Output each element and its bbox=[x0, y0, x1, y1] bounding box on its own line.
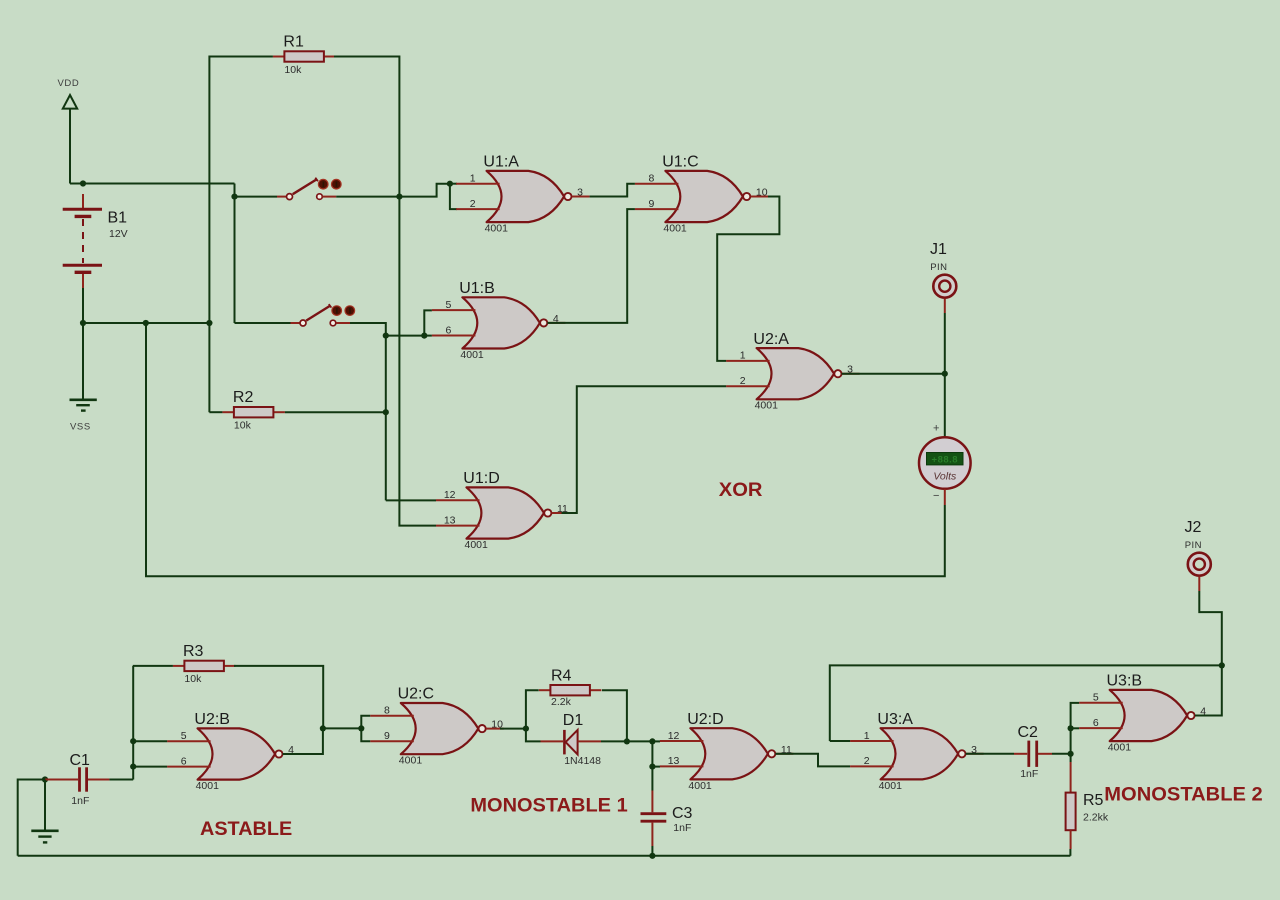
D1 cathode lead bbox=[541, 740, 564, 742]
wire to U2:B pin 6 bbox=[133, 766, 167, 768]
svg-text:6: 6 bbox=[1093, 717, 1099, 729]
junction J2 / U3:B out / feedback bbox=[1219, 662, 1225, 668]
svg-text:13: 13 bbox=[668, 755, 680, 767]
junction C1 / ground bbox=[42, 776, 48, 782]
svg-text:R2: R2 bbox=[233, 389, 254, 406]
NOR gate U2:C (4001) body bbox=[401, 703, 479, 754]
U2:D input pin 12 stub bbox=[660, 740, 704, 742]
wire node to voltmeter + bbox=[944, 374, 946, 437]
U2:C input pin 9 stub bbox=[370, 740, 414, 742]
svg-text:U2:D: U2:D bbox=[687, 711, 723, 728]
svg-text:U1:B: U1:B bbox=[459, 280, 495, 297]
switch2 left pin bbox=[291, 322, 300, 324]
svg-text:R1: R1 bbox=[283, 33, 304, 50]
wire node A vertical to U1:D pin 13 bbox=[399, 197, 436, 526]
battery B1 bottom lead bbox=[82, 274, 84, 288]
U2:A input pin 1 stub bbox=[726, 360, 770, 362]
wire switch feed vertical bbox=[234, 197, 236, 323]
U1:A input pin 1 stub bbox=[456, 183, 500, 185]
U2:D output pin 11 stub bbox=[776, 753, 794, 755]
wire node B to U1:B pin 6 bbox=[386, 335, 425, 337]
wire to U2:C pin 8 bbox=[361, 716, 370, 729]
junction U2:C out / R4 / D1 bbox=[523, 726, 529, 732]
switch1 right pin bbox=[322, 196, 336, 198]
wire C1 to R3/U2:B inputs vertical bbox=[132, 666, 134, 780]
svg-text:6: 6 bbox=[181, 755, 187, 767]
svg-text:1: 1 bbox=[864, 730, 870, 742]
C3 top lead bbox=[651, 791, 653, 813]
ground symbol VSS bbox=[70, 400, 97, 411]
svg-text:PIN: PIN bbox=[1185, 540, 1202, 551]
U3:A input pin 1 stub bbox=[850, 740, 894, 742]
svg-text:U3:A: U3:A bbox=[877, 711, 913, 728]
wire to astable ground bbox=[44, 780, 46, 830]
R4 right lead bbox=[590, 689, 602, 691]
wire R1 right vertical to switch1 node bbox=[398, 56, 400, 197]
U2:B output bubble bbox=[275, 750, 282, 757]
R4 left lead bbox=[539, 689, 551, 691]
U3:B output bubble bbox=[1187, 712, 1194, 719]
C1 left lead bbox=[45, 779, 78, 781]
wire R3 right to U2:B out node bbox=[234, 666, 323, 729]
wire down to D1 cathode bbox=[526, 729, 541, 742]
svg-text:−: − bbox=[933, 490, 939, 502]
U1:B input pin 5 stub bbox=[432, 309, 476, 311]
svg-text:C2: C2 bbox=[1018, 724, 1039, 741]
switch SW1 actuator dot 1 bbox=[318, 179, 328, 189]
wire down to pin 13 node bbox=[651, 741, 653, 766]
svg-text:1nF: 1nF bbox=[1020, 768, 1038, 780]
svg-text:VDD: VDD bbox=[58, 78, 80, 89]
wire U3:B out up to J2 node bbox=[1208, 665, 1222, 715]
svg-text:2: 2 bbox=[740, 375, 746, 387]
wire node B vertical to U1:D pin 12 bbox=[385, 336, 387, 501]
wire R2 left bbox=[209, 411, 222, 413]
svg-text:U2:B: U2:B bbox=[194, 711, 230, 728]
svg-text:1nF: 1nF bbox=[71, 795, 89, 807]
U1:B input pin 6 stub bbox=[432, 335, 476, 337]
resistor R5 body bbox=[1066, 793, 1076, 831]
junction U1:B input split bbox=[421, 333, 427, 339]
svg-text:10k: 10k bbox=[184, 673, 202, 685]
junction U2:C input split bbox=[358, 725, 364, 731]
svg-text:R3: R3 bbox=[183, 643, 204, 660]
junction node A (R1/switch1) bbox=[396, 194, 402, 200]
wire node C up to U3:B pin 5 bbox=[1071, 703, 1080, 754]
svg-text:U1:A: U1:A bbox=[483, 154, 519, 171]
wire to U1:B pin 6 stub bbox=[424, 335, 432, 337]
wire VSS rail bbox=[83, 322, 209, 324]
wire R1 right bbox=[334, 56, 399, 58]
svg-text:5: 5 bbox=[446, 299, 452, 311]
U2:B output pin 4 stub bbox=[283, 753, 301, 755]
R1 left lead bbox=[273, 56, 285, 58]
U1:D output bubble bbox=[544, 509, 551, 516]
wire to U2:D pin 13 bbox=[652, 766, 660, 768]
svg-text:PIN: PIN bbox=[930, 262, 947, 273]
svg-text:VSS: VSS bbox=[70, 422, 91, 433]
U1:C output bubble bbox=[743, 193, 750, 200]
svg-text:4001: 4001 bbox=[879, 780, 903, 792]
ground symbol at C1 bbox=[31, 831, 58, 843]
U2:D input pin 13 stub bbox=[660, 765, 704, 767]
svg-text:5: 5 bbox=[1093, 692, 1099, 704]
wire R2 right to node B bbox=[285, 411, 386, 413]
svg-text:9: 9 bbox=[649, 198, 655, 210]
wire voltmeter return to VSS rail bbox=[146, 323, 945, 576]
R3 left lead bbox=[173, 665, 185, 667]
svg-text:1nF: 1nF bbox=[673, 822, 691, 834]
svg-text:U1:D: U1:D bbox=[463, 470, 499, 487]
wire U1:B out bbox=[547, 322, 560, 324]
svg-text:ASTABLE: ASTABLE bbox=[200, 819, 292, 840]
svg-text:8: 8 bbox=[384, 705, 390, 717]
wire U1:D out to U2:A pin 2 bbox=[562, 386, 727, 513]
connector J1 outer ring bbox=[933, 275, 956, 298]
wire U3:A out to C2 bbox=[966, 753, 1014, 755]
svg-text:2.2k: 2.2k bbox=[551, 696, 572, 708]
junction battery + node bbox=[80, 180, 86, 186]
U3:B output pin 4 stub bbox=[1195, 715, 1213, 717]
svg-text:4001: 4001 bbox=[755, 400, 779, 412]
wire U1:C out to U2:A pin 1 bbox=[717, 197, 779, 361]
junction node B / R2 right bbox=[383, 409, 389, 415]
svg-text:4001: 4001 bbox=[485, 223, 509, 235]
U1:B output bubble bbox=[540, 319, 547, 326]
wire U1:B out to U1:C pin 9 bbox=[560, 209, 635, 323]
switch SW1 right pole bbox=[317, 194, 323, 200]
svg-text:J2: J2 bbox=[1185, 519, 1202, 536]
junction battery - node bbox=[80, 320, 86, 326]
svg-text:1N4148: 1N4148 bbox=[564, 755, 601, 767]
junction U2:D pin 13 / C3 bbox=[649, 764, 655, 770]
svg-text:1: 1 bbox=[740, 350, 746, 362]
svg-text:U1:C: U1:C bbox=[662, 154, 698, 171]
U1:D input pin 13 stub bbox=[436, 525, 480, 527]
wire down to C3 bbox=[651, 767, 653, 791]
wire to U1:B pin 5 bbox=[424, 310, 432, 335]
wire C1 right bbox=[109, 779, 133, 781]
svg-text:4001: 4001 bbox=[399, 755, 423, 767]
svg-text:8: 8 bbox=[649, 173, 655, 185]
R3 right lead bbox=[224, 665, 236, 667]
wire U1:A out to U1:C pin 8 bbox=[590, 184, 635, 197]
wire battery - to VSS rail bbox=[82, 288, 84, 323]
U1:A output bubble bbox=[564, 193, 571, 200]
svg-text:1: 1 bbox=[470, 173, 476, 185]
svg-text:10: 10 bbox=[756, 187, 768, 199]
svg-text:9: 9 bbox=[384, 730, 390, 742]
svg-text:J1: J1 bbox=[930, 241, 947, 258]
voltmeter body bbox=[919, 437, 971, 489]
NOR gate U2:D (4001) body bbox=[690, 728, 768, 779]
svg-text:D1: D1 bbox=[563, 712, 584, 729]
svg-text:5: 5 bbox=[181, 730, 187, 742]
U2:C input pin 8 stub bbox=[370, 715, 414, 717]
U1:A input pin 2 stub bbox=[456, 208, 500, 210]
resistor R1 body bbox=[284, 51, 324, 61]
junction VSS rail / XOR return bbox=[143, 320, 149, 326]
connector J1 inner ring bbox=[939, 281, 950, 292]
diode D1 triangle bbox=[566, 730, 578, 755]
switch SW2 right pole bbox=[330, 320, 336, 326]
junction switch poles feed bbox=[231, 194, 237, 200]
U3:B input pin 5 stub bbox=[1079, 702, 1123, 704]
junction U3:B pin 6 tap bbox=[1068, 725, 1074, 731]
svg-text:6: 6 bbox=[446, 324, 452, 336]
connector J2 inner ring bbox=[1194, 559, 1205, 570]
U2:D output bubble bbox=[768, 750, 775, 757]
NOR gate U1:B (4001) body bbox=[462, 297, 540, 348]
wire to U1:A pin 1 bbox=[450, 183, 457, 185]
U2:A input pin 2 stub bbox=[726, 385, 770, 387]
wire J1 down bbox=[944, 313, 946, 374]
wire to U2:C pin 9 bbox=[361, 728, 370, 741]
wire U2:D out stub bbox=[775, 753, 790, 755]
voltmeter bottom pin bbox=[944, 489, 946, 505]
switch SW1 actuator dot 2 bbox=[332, 179, 342, 189]
wire U2:C out bbox=[500, 728, 526, 730]
battery B1 plates bbox=[63, 209, 102, 272]
D1 anode lead bbox=[578, 740, 601, 742]
svg-text:+88.8: +88.8 bbox=[932, 454, 959, 465]
U2:C output pin 10 stub bbox=[486, 728, 504, 730]
wire bottom rail bbox=[18, 855, 1071, 857]
svg-text:12: 12 bbox=[444, 489, 456, 501]
NOR gate U2:B (4001) body bbox=[198, 728, 276, 779]
junction J1 / voltmeter node bbox=[942, 371, 948, 377]
wire R4 right down bbox=[602, 690, 627, 741]
C3 bottom lead bbox=[651, 823, 653, 846]
wire VDD to battery node bbox=[70, 183, 83, 185]
U2:A output pin 3 stub bbox=[842, 373, 860, 375]
capacitor C2 plates bbox=[1029, 741, 1037, 767]
svg-text:C1: C1 bbox=[70, 752, 91, 769]
wire to U1:D pin 12 bbox=[386, 499, 436, 501]
svg-text:C3: C3 bbox=[672, 805, 693, 822]
wire VDD arrow down bbox=[69, 109, 71, 184]
U3:A input pin 2 stub bbox=[850, 765, 894, 767]
svg-text:3: 3 bbox=[577, 187, 583, 199]
svg-text:B1: B1 bbox=[108, 210, 128, 227]
svg-text:4001: 4001 bbox=[196, 780, 220, 792]
switch SW1 left pole bbox=[287, 194, 293, 200]
J1 pin stub bbox=[944, 299, 946, 314]
R5 top lead bbox=[1070, 762, 1072, 793]
U3:A output bubble bbox=[958, 750, 965, 757]
U2:A output bubble bbox=[834, 370, 841, 377]
wire to U2:D pin 12 bbox=[652, 740, 660, 742]
wire R1 left vertical rail to R2 bbox=[208, 56, 210, 413]
wire C3 to bottom rail bbox=[651, 846, 653, 856]
U2:B input pin 6 stub bbox=[167, 766, 211, 768]
svg-text:12V: 12V bbox=[109, 228, 128, 240]
wire node to U2:C inputs bbox=[323, 727, 361, 729]
svg-text:MONOSTABLE 2: MONOSTABLE 2 bbox=[1104, 785, 1262, 806]
switch2 right pin bbox=[336, 322, 350, 324]
R1 right lead bbox=[324, 56, 336, 58]
junction R4 / D1 anode bbox=[624, 738, 630, 744]
wire feedback from J2 node bbox=[830, 665, 1222, 741]
connector J2 outer ring bbox=[1188, 553, 1211, 576]
svg-text:XOR: XOR bbox=[719, 480, 763, 501]
J2 pin stub bbox=[1198, 577, 1200, 592]
svg-text:10k: 10k bbox=[234, 420, 252, 432]
svg-text:U2:C: U2:C bbox=[398, 686, 434, 703]
wire switch2 to node B bbox=[350, 323, 386, 336]
NOR gate U1:D (4001) body bbox=[467, 487, 545, 538]
NOR gate U1:C (4001) body bbox=[665, 171, 743, 222]
svg-text:4001: 4001 bbox=[1108, 742, 1132, 754]
junction C3 / bottom rail bbox=[649, 853, 655, 859]
junction U2:B pin 6 tap bbox=[130, 764, 136, 770]
U2:C output bubble bbox=[479, 725, 486, 732]
wire to U3:B pin 6 bbox=[1071, 727, 1080, 729]
U1:C output pin 10 stub bbox=[751, 196, 769, 198]
junction U2:D pin 12 / C3 bbox=[649, 738, 655, 744]
U1:D input pin 12 stub bbox=[436, 499, 480, 501]
junction R3 / U2:B out bbox=[320, 725, 326, 731]
svg-text:2.2kk: 2.2kk bbox=[1083, 811, 1109, 823]
wire VDD corner to switch1 bbox=[234, 184, 236, 197]
capacitor C3 plates bbox=[641, 814, 667, 822]
R5 bottom lead bbox=[1070, 830, 1072, 849]
U1:B output pin 4 stub bbox=[548, 322, 566, 324]
svg-text:+: + bbox=[933, 423, 939, 435]
wire C2 to node C bbox=[1052, 753, 1071, 755]
wire up to R4 bbox=[526, 690, 539, 728]
C1 right lead bbox=[88, 779, 109, 781]
resistor R4 body bbox=[550, 685, 590, 695]
wire D1 to R4 node bbox=[601, 740, 627, 742]
U1:C input pin 9 stub bbox=[635, 208, 679, 210]
svg-text:MONOSTABLE 1: MONOSTABLE 1 bbox=[470, 796, 628, 817]
U2:B input pin 5 stub bbox=[167, 740, 211, 742]
wire switch1 to node A bbox=[336, 196, 399, 198]
wire R1 left bbox=[209, 56, 273, 58]
svg-text:10k: 10k bbox=[284, 64, 302, 76]
switch SW1 lever bbox=[293, 179, 317, 194]
wire U2:B out stub bbox=[283, 753, 295, 755]
wire node A to U1:A inputs bbox=[399, 184, 450, 197]
svg-text:2: 2 bbox=[470, 198, 476, 210]
U1:D output pin 11 stub bbox=[552, 512, 570, 514]
battery B1 top lead bbox=[82, 194, 84, 208]
svg-text:U2:A: U2:A bbox=[753, 331, 789, 348]
NOR gate U3:A (4001) body bbox=[881, 728, 959, 779]
wire to switch1 pole bbox=[235, 196, 278, 198]
svg-text:Volts: Volts bbox=[933, 471, 957, 483]
U3:B input pin 6 stub bbox=[1079, 727, 1123, 729]
junction VSS rail / R pulldowns bbox=[206, 320, 212, 326]
R2 left lead bbox=[222, 411, 234, 413]
wire C1 left to bottom rail bbox=[18, 780, 46, 856]
wire R3 left bbox=[133, 665, 173, 667]
svg-text:U3:B: U3:B bbox=[1107, 673, 1143, 690]
wire J2 down to node bbox=[1199, 591, 1222, 665]
wire to switch2 pole bbox=[235, 322, 291, 324]
U1:A output pin 3 stub bbox=[572, 196, 590, 198]
svg-text:R4: R4 bbox=[551, 667, 572, 684]
wire to U2:D pin 12 node bbox=[627, 740, 653, 742]
svg-text:4001: 4001 bbox=[465, 539, 489, 551]
wire to U2:B pin 5 bbox=[133, 740, 167, 742]
junction U1:A input split bbox=[447, 181, 453, 187]
R2 right lead bbox=[273, 411, 285, 413]
wire to U1:A pin 2 bbox=[450, 184, 457, 209]
U1:C input pin 8 stub bbox=[635, 183, 679, 185]
wire R5 to bottom rail bbox=[1069, 849, 1071, 856]
wire VDD rail to switches bbox=[83, 183, 235, 185]
switch SW2 actuator dot 1 bbox=[332, 306, 342, 316]
switch SW2 left pole bbox=[300, 320, 306, 326]
junction node B (R2/switch2) bbox=[383, 333, 389, 339]
svg-text:12: 12 bbox=[668, 730, 680, 742]
junction node C (C2/R5) bbox=[1068, 751, 1074, 757]
svg-text:4001: 4001 bbox=[460, 349, 484, 361]
voltmeter display bbox=[927, 453, 964, 465]
switch SW2 lever bbox=[306, 306, 330, 321]
wire to VSS ground bbox=[82, 323, 84, 399]
C2 right lead bbox=[1038, 753, 1052, 755]
switch1 left pin bbox=[277, 196, 286, 198]
wire node C down bbox=[1070, 754, 1072, 762]
diode D1 cathode bar bbox=[563, 730, 566, 755]
resistor R3 body bbox=[184, 661, 224, 671]
NOR gate U2:A (4001) body bbox=[757, 348, 835, 399]
wire U3:B out stub bbox=[1195, 715, 1208, 717]
wire feedback to U3:A pin 1 bbox=[830, 740, 850, 742]
resistor R2 body bbox=[234, 407, 274, 417]
NOR gate U3:B (4001) body bbox=[1110, 690, 1188, 741]
C2 left lead bbox=[1014, 753, 1027, 755]
svg-text:13: 13 bbox=[444, 514, 456, 526]
junction U2:B pin 5 tap bbox=[130, 738, 136, 744]
wire U2:D out to U3:A pin 2 bbox=[790, 754, 850, 767]
svg-text:4001: 4001 bbox=[688, 780, 712, 792]
VDD power arrow symbol bbox=[63, 95, 77, 109]
wire U2:A out to J1 node bbox=[842, 373, 945, 375]
U3:A output pin 3 stub bbox=[966, 753, 984, 755]
NOR gate U1:A (4001) body bbox=[487, 171, 564, 222]
svg-text:R5: R5 bbox=[1083, 792, 1104, 809]
wire U2:B out up to node bbox=[295, 728, 323, 754]
switch SW2 actuator dot 2 bbox=[345, 306, 355, 316]
capacitor C1 plates bbox=[80, 767, 87, 791]
svg-text:4001: 4001 bbox=[663, 223, 687, 235]
svg-text:2: 2 bbox=[864, 755, 870, 767]
